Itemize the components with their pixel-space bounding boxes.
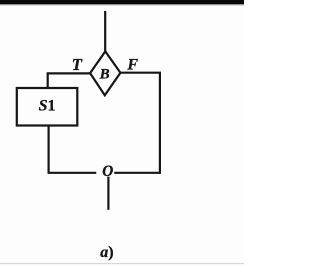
wire: F branch from diamond right vertex, right then down (120, 73, 159, 174)
box S1 (17, 88, 78, 126)
wire: entry line from top (104, 11, 106, 52)
svg-text:F: F (126, 57, 138, 74)
svg-text:S1: S1 (39, 97, 56, 114)
decision diamond B (90, 51, 120, 95)
wire: S1 bottom to O node (left bottom segment) (49, 126, 97, 173)
wire: exit line below O (107, 177, 109, 210)
wire: T branch from diamond left vertex to S1 top (48, 73, 90, 88)
svg-text:B: B (99, 67, 110, 83)
top black bar (0, 0, 244, 4)
svg-text:T: T (72, 55, 83, 74)
bottom gray rule (0, 263, 244, 264)
wire: O to right corner (114, 172, 160, 174)
svg-text:a): a) (100, 244, 113, 261)
